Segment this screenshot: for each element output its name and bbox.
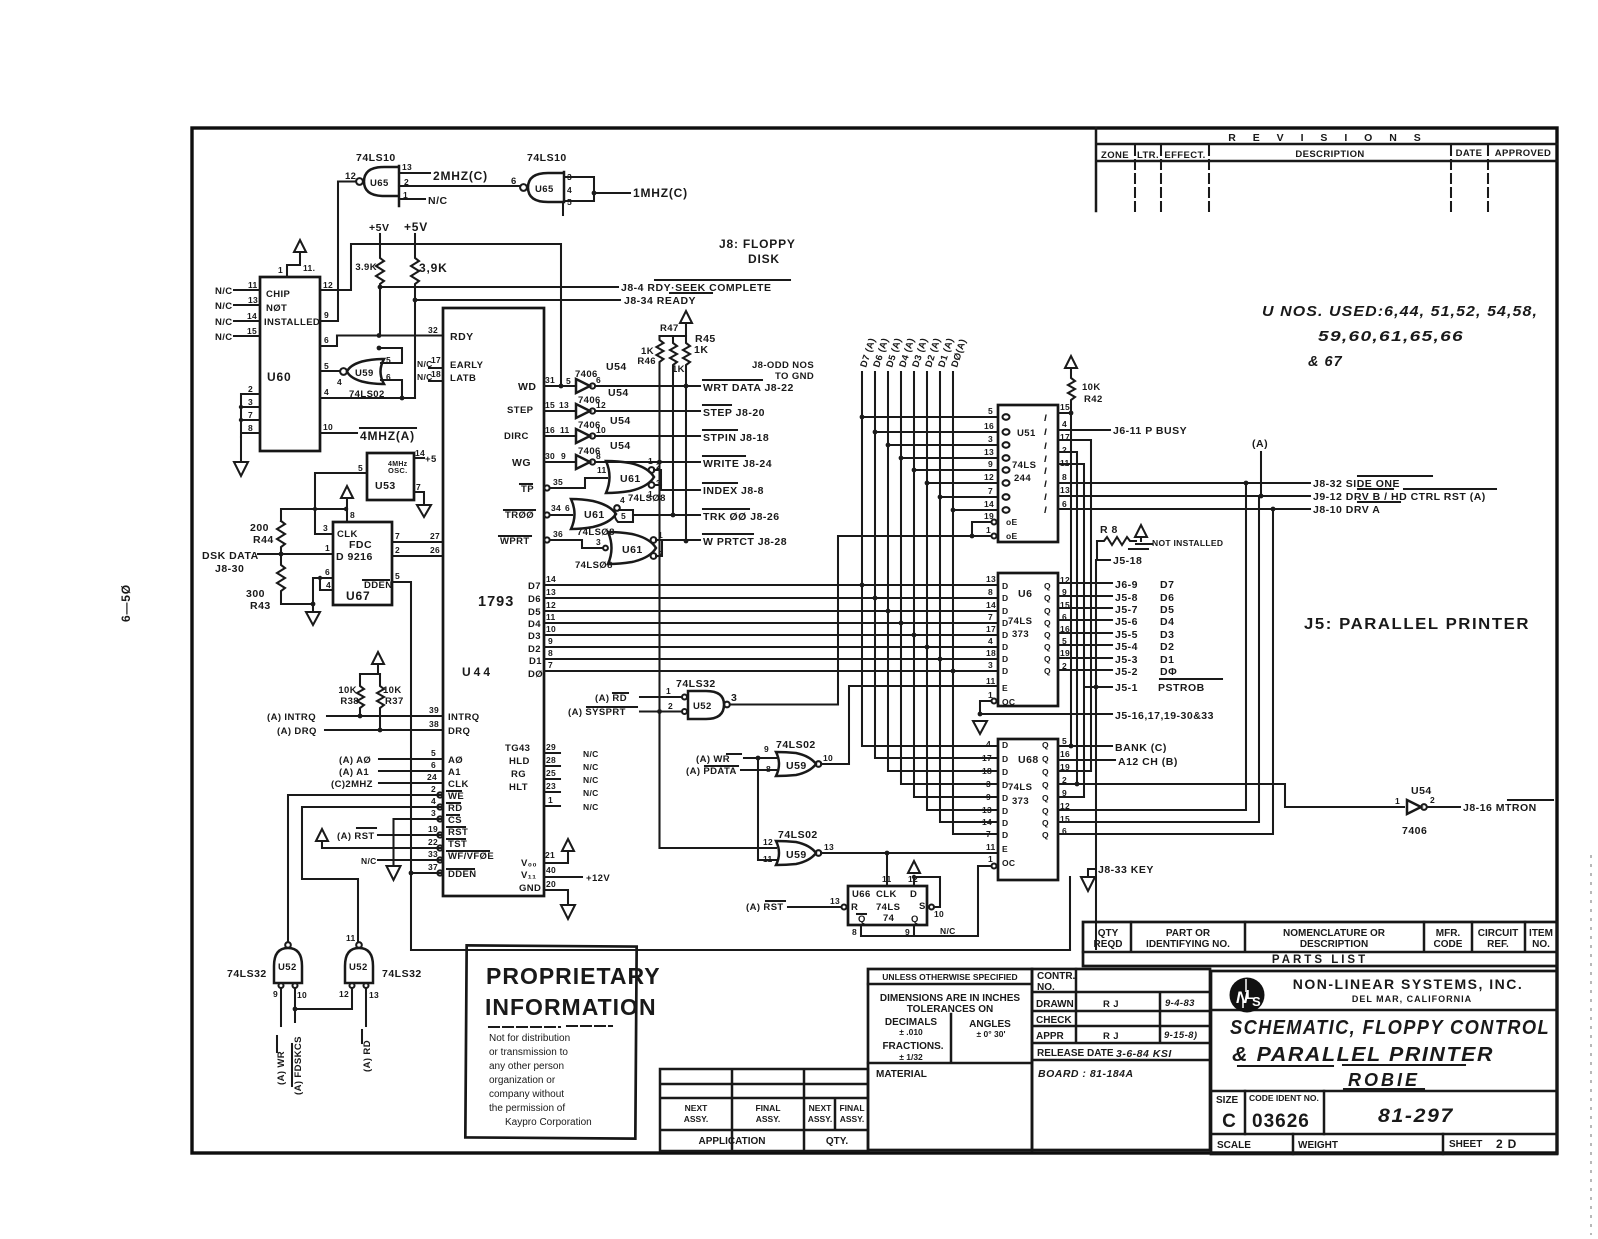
svg-text:(A) AØ: (A) AØ: [339, 755, 371, 766]
label J8-ODD NOS TO GND: [752, 360, 814, 382]
wire WPRT pin36 to U61c: [544, 529, 607, 550]
svg-text:1: 1: [325, 543, 330, 553]
svg-text:CIRCUIT: CIRCUIT: [1478, 928, 1519, 939]
svg-text:13: 13: [402, 162, 412, 172]
wire TP pin35 to U61a: [544, 465, 607, 491]
svg-text:(A) RST: (A) RST: [746, 902, 784, 913]
svg-text:MFR.: MFR.: [1436, 928, 1461, 939]
svg-text:or transmission to: or transmission to: [489, 1047, 568, 1058]
svg-text:E: E: [1002, 683, 1008, 693]
svg-text:300: 300: [246, 588, 265, 600]
svg-text:14: 14: [415, 448, 425, 458]
svg-text:10K: 10K: [383, 685, 402, 696]
wire D5 bus: [544, 610, 998, 612]
wire U68 Q16 A12CH: [1058, 759, 1115, 761]
svg-text:9: 9: [273, 989, 278, 999]
svg-text:U52: U52: [349, 962, 368, 973]
svg-text:U53: U53: [375, 480, 396, 492]
svg-text:U NOS. USED:6,44, 51,52, 54,58: U NOS. USED:6,44, 51,52, 54,58,: [1262, 304, 1538, 320]
svg-text:I: I: [1044, 479, 1047, 490]
svg-text:D3: D3: [528, 631, 541, 642]
svg-text:10K: 10K: [338, 685, 357, 696]
svg-text:NO.: NO.: [1532, 939, 1550, 950]
svg-text:13: 13: [830, 896, 840, 906]
svg-text:APPR: APPR: [1036, 1031, 1065, 1042]
wire U51 input rows: [862, 417, 998, 510]
svg-text:4: 4: [324, 387, 329, 397]
svg-text:NEXT: NEXT: [685, 1103, 708, 1113]
svg-text:RG: RG: [511, 769, 526, 780]
svg-text:OC: OC: [1002, 697, 1015, 707]
wire R44 top rail: [281, 509, 347, 521]
svg-text:10: 10: [823, 753, 833, 763]
label DSK DATA J8-30: [202, 550, 259, 575]
svg-text:13: 13: [986, 574, 996, 584]
svg-text:J8-16 MTRON: J8-16 MTRON: [1463, 802, 1537, 814]
wire U66 CLK tap: [886, 853, 888, 886]
wire (A) A1 to pin 6: [339, 760, 443, 778]
svg-text:3: 3: [986, 779, 991, 789]
svg-text:N/C: N/C: [583, 788, 599, 798]
svg-text:1: 1: [988, 854, 993, 864]
svg-text:SIZE: SIZE: [1216, 1095, 1239, 1106]
power arrow above R37/R38: [360, 652, 384, 674]
wire STPIN line: [595, 435, 700, 437]
label WRT DATA J8-22: [703, 380, 794, 394]
label J5-1 PSTROB: [1115, 679, 1222, 694]
svg-text:I: I: [1044, 492, 1047, 503]
wire U68 Q5 BANK(C): [1058, 745, 1112, 747]
svg-text:D: D: [1002, 581, 1008, 591]
svg-text:4: 4: [337, 377, 342, 387]
svg-text:S: S: [1252, 994, 1261, 1009]
wire (A) PDATA input: [686, 766, 776, 777]
svg-text:ZONE: ZONE: [1101, 150, 1129, 161]
tolerance block UNLESS OTHERWISE SPECIFIED: [868, 969, 1032, 1150]
svg-text:R47: R47: [660, 323, 679, 334]
svg-text:5: 5: [566, 376, 571, 386]
wire bus vertical D1(A): [940, 372, 998, 822]
svg-text:D6: D6: [528, 594, 541, 605]
svg-text:U54: U54: [1411, 785, 1432, 797]
svg-text:J8-ODD NOS: J8-ODD NOS: [752, 360, 814, 371]
svg-text:74LSØ8: 74LSØ8: [575, 560, 613, 571]
inverter U54c 7406: [576, 415, 631, 443]
svg-text:23: 23: [546, 781, 556, 791]
svg-text:(C)2MHZ: (C)2MHZ: [331, 779, 373, 790]
wire DIRC pin16 to inverter: [544, 435, 576, 437]
resistor R8 not installed: [1097, 524, 1223, 549]
wire J8-34 line: [415, 299, 620, 301]
svg-text:59,60,61,65,66: 59,60,61,65,66: [1318, 329, 1464, 345]
svg-text:9: 9: [561, 451, 566, 461]
svg-text:STEP: STEP: [507, 405, 534, 416]
svg-text:10K: 10K: [1082, 382, 1101, 393]
svg-text:DISK: DISK: [748, 252, 780, 266]
svg-text:10: 10: [297, 990, 307, 1000]
svg-text:35: 35: [553, 477, 563, 487]
U44 pin18 LATB N/C: [417, 369, 443, 382]
svg-text:13: 13: [984, 447, 994, 457]
wire SYSPRT vertical into U59c pin12: [660, 712, 777, 849]
wire U68 Q9 from U51 pin11: [1058, 796, 1084, 798]
svg-text:3.9K: 3.9K: [355, 262, 377, 273]
svg-text:38: 38: [429, 719, 439, 729]
svg-text:J5: PARALLEL PRINTER: J5: PARALLEL PRINTER: [1304, 616, 1530, 633]
svg-text:W PRTCT J8-28: W PRTCT J8-28: [703, 536, 787, 548]
wire bus vertical D5(A): [888, 372, 998, 771]
svg-text:9: 9: [548, 636, 553, 646]
svg-text:Q: Q: [1042, 767, 1049, 777]
wire WRITE line: [595, 461, 700, 463]
svg-text:Q: Q: [1044, 581, 1051, 591]
svg-text:U66: U66: [852, 889, 871, 900]
svg-text:TRK ØØ J8-26: TRK ØØ J8-26: [703, 511, 780, 523]
svg-text:11: 11: [248, 280, 258, 290]
svg-text:6: 6: [596, 375, 601, 385]
wire TRK00 line: [633, 514, 700, 516]
svg-text:U54: U54: [608, 387, 629, 399]
svg-text:DIMENSIONS ARE IN INCHES: DIMENSIONS ARE IN INCHES: [880, 993, 1021, 1004]
wire U6 OC to ground and J5-16 line: [980, 701, 1112, 714]
svg-text:2: 2: [1062, 445, 1067, 455]
svg-text:13: 13: [248, 295, 258, 305]
svg-text:oE: oE: [1006, 517, 1017, 527]
wire DDEN pin 37: [409, 862, 443, 876]
wire U65a pin2 to U65b input: [399, 185, 520, 187]
wire U52a pin9 down to (A)WR: [280, 988, 282, 1026]
svg-text:WG: WG: [512, 457, 531, 469]
svg-text:17: 17: [982, 753, 992, 763]
svg-text:D: D: [1002, 666, 1008, 676]
svg-text:Q: Q: [1042, 754, 1049, 764]
svg-text:D2: D2: [1160, 641, 1174, 653]
svg-text:3: 3: [988, 434, 993, 444]
svg-text:39: 39: [429, 705, 439, 715]
svg-text:74LS02: 74LS02: [778, 829, 818, 841]
wire bus vertical D0(A): [953, 372, 998, 834]
wire U59a pin5 loop to R pullup: [379, 348, 402, 363]
inverter U54d 7406: [576, 440, 631, 469]
svg-text:& PARALLEL PRINTER: & PARALLEL PRINTER: [1232, 1044, 1494, 1066]
svg-text:9: 9: [986, 792, 991, 802]
svg-text:IDENTIFYING NO.: IDENTIFYING NO.: [1146, 939, 1230, 950]
svg-text:J5-6: J5-6: [1115, 616, 1138, 628]
svg-text:18: 18: [986, 648, 996, 658]
ground arrow under R43: [306, 604, 320, 625]
svg-text:U61: U61: [622, 544, 643, 556]
svg-text:36: 36: [553, 529, 563, 539]
svg-text:373: 373: [1012, 796, 1029, 807]
power +5V (left): [369, 222, 389, 244]
wire STEP pin15 to inverter: [544, 410, 576, 412]
svg-text:1: 1: [658, 530, 663, 540]
svg-text:21: 21: [545, 850, 555, 860]
svg-text:U68: U68: [1018, 754, 1039, 766]
svg-text:TST: TST: [448, 839, 467, 850]
wire U51 pin8 J8-32 SIDE ONE line: [1058, 482, 1310, 484]
svg-text:(A): (A): [1252, 438, 1268, 450]
svg-text:U54: U54: [610, 415, 631, 427]
wire (A) WR input: [696, 754, 776, 765]
svg-text:(A) WR: (A) WR: [276, 1051, 287, 1085]
wire D6 bus: [544, 597, 998, 599]
svg-text:ITEM: ITEM: [1529, 928, 1553, 939]
wire U65a pin13 to 2MHZ(C): [399, 172, 430, 174]
wire RD net pin 4: [302, 796, 443, 941]
svg-text:HLD: HLD: [509, 756, 530, 767]
svg-text:RDY: RDY: [450, 331, 474, 343]
label J8-16 MTRON: [1463, 800, 1553, 814]
svg-text:N/C: N/C: [583, 775, 599, 785]
wire D7 bus: [544, 584, 998, 586]
svg-text:5: 5: [395, 571, 400, 581]
svg-text:4: 4: [431, 796, 436, 806]
svg-text:J5-5: J5-5: [1115, 629, 1138, 641]
svg-text:WEIGHT: WEIGHT: [1298, 1140, 1338, 1151]
svg-text:J5-16,17,19-30&33: J5-16,17,19-30&33: [1115, 710, 1214, 722]
title block NLS: [1211, 971, 1557, 1154]
svg-text:N/C: N/C: [428, 195, 448, 207]
svg-text:U60: U60: [267, 370, 291, 384]
svg-text:15: 15: [247, 326, 257, 336]
svg-text:D6: D6: [1160, 592, 1174, 604]
svg-text:8: 8: [1062, 472, 1067, 482]
label STPIN J8-18: [703, 430, 769, 444]
U44 pin 21 Vcc power arrow: [544, 839, 574, 863]
svg-text:CHIP: CHIP: [266, 289, 291, 300]
or gate U61a dual output: [606, 456, 666, 504]
svg-text:NØT: NØT: [266, 303, 287, 314]
svg-text:11: 11: [597, 465, 607, 475]
wire TRO0 pin34 to U61b: [544, 503, 572, 518]
wire U6 Q2 to J5-2 D0: [1058, 669, 1112, 671]
svg-text:12: 12: [596, 400, 606, 410]
svg-text:(A) SYSPRT: (A) SYSPRT: [568, 707, 626, 718]
wire (A) A0 to pin 5: [339, 748, 443, 766]
U60 top pins 1,11 to power arrow: [278, 240, 315, 277]
wire U52b pin13 down to (A)RD: [365, 988, 367, 1026]
junction R45 on WRT DATA line: [684, 384, 689, 389]
wire MTRON output: [1427, 806, 1460, 808]
svg-text:D: D: [1002, 606, 1008, 616]
svg-text:5: 5: [431, 748, 436, 758]
wire WG pin30 to inverter: [544, 461, 576, 463]
svg-text:J8-33 KEY: J8-33 KEY: [1098, 864, 1154, 876]
wire D0 bus: [544, 670, 998, 672]
label J9-12 DRV B / HD CTRL RST (A): [1313, 489, 1496, 503]
svg-text:U61: U61: [620, 473, 641, 485]
svg-text:DØ: DØ: [528, 669, 543, 680]
wire J5-18 vertical to PSTROB and down: [1095, 560, 1097, 949]
svg-text:11: 11: [546, 612, 556, 622]
svg-text:2: 2: [656, 461, 661, 471]
svg-text:3: 3: [431, 808, 436, 818]
svg-text:WRT DATA J8-22: WRT DATA J8-22: [703, 382, 794, 394]
ground arrow under U60: [234, 437, 248, 476]
svg-text:9: 9: [324, 310, 329, 320]
svg-text:Q: Q: [1042, 780, 1049, 790]
U60 left pin 15 N/C: [215, 326, 260, 343]
svg-text:+5: +5: [425, 454, 437, 465]
svg-text:+5V: +5V: [369, 222, 389, 234]
svg-text:1: 1: [648, 456, 653, 466]
svg-text:13: 13: [982, 805, 992, 815]
svg-text:12: 12: [546, 600, 556, 610]
svg-text:4MHZ(A): 4MHZ(A): [360, 429, 415, 443]
svg-text:BANK (C): BANK (C): [1115, 742, 1167, 754]
svg-text:NO.: NO.: [1037, 982, 1055, 993]
svg-text:17: 17: [986, 624, 996, 634]
IC U67 FDC 9216: [323, 522, 393, 605]
svg-text:N/C: N/C: [215, 301, 233, 312]
svg-text:R J: R J: [1103, 999, 1119, 1010]
svg-text:D 9216: D 9216: [336, 551, 373, 563]
svg-text:V₀₀: V₀₀: [521, 858, 537, 869]
label J8-32 SIDE ONE: [1313, 476, 1432, 490]
svg-text:4: 4: [326, 580, 331, 590]
wire RDY net: [337, 334, 443, 336]
svg-text:EFFECT.: EFFECT.: [1164, 150, 1205, 161]
svg-text:D2: D2: [528, 644, 541, 655]
svg-text:20: 20: [546, 879, 556, 889]
svg-text:1K: 1K: [694, 344, 708, 356]
svg-text:SCHEMATIC, FLOPPY CONTROL: SCHEMATIC, FLOPPY CONTROL: [1230, 1017, 1550, 1039]
wire (A) RST to pin 19: [337, 824, 443, 842]
svg-text:NON-LINEAR SYSTEMS, INC.: NON-LINEAR SYSTEMS, INC.: [1293, 976, 1523, 992]
svg-text:5: 5: [621, 511, 626, 521]
svg-text:22: 22: [428, 837, 438, 847]
svg-text:J8-30: J8-30: [215, 563, 244, 575]
svg-text:19: 19: [1060, 648, 1070, 658]
svg-text:LATB: LATB: [450, 373, 476, 384]
svg-text:DESCRIPTION: DESCRIPTION: [1295, 149, 1364, 160]
wire U59b out to U6 E: [821, 686, 998, 764]
U44 pin 40 Vdd +12V: [544, 865, 610, 884]
wire U6 Q15 to J5-7 D5: [1058, 607, 1112, 609]
svg-text:(A) FDSKCS: (A) FDSKCS: [293, 1036, 304, 1095]
and gate U52 mid: [682, 691, 737, 719]
U60 left pin 11 N/C: [215, 280, 260, 297]
svg-text:11: 11: [986, 842, 996, 852]
svg-text:any other person: any other person: [489, 1061, 564, 1072]
svg-text:FINAL: FINAL: [839, 1103, 864, 1113]
svg-text:13: 13: [559, 400, 569, 410]
svg-text:ASSY.: ASSY.: [684, 1114, 709, 1124]
svg-text:WPRT: WPRT: [500, 536, 530, 547]
svg-text:81-297: 81-297: [1378, 1106, 1454, 1127]
svg-text:QTY: QTY: [1098, 928, 1119, 939]
svg-text:6: 6: [324, 335, 329, 345]
U44 pin 20 GND to ground: [544, 879, 575, 919]
wire (A) INTRQ to pin 39: [267, 705, 443, 723]
svg-text:NOT INSTALLED: NOT INSTALLED: [1152, 538, 1223, 548]
svg-text:R37: R37: [385, 696, 404, 707]
svg-text:7: 7: [416, 482, 421, 492]
svg-text:14: 14: [982, 817, 992, 827]
svg-text:(A) RD: (A) RD: [595, 693, 627, 704]
revisions table: [1096, 128, 1557, 211]
svg-text:18: 18: [431, 369, 441, 379]
svg-text:34: 34: [551, 503, 561, 513]
svg-text:Q: Q: [858, 914, 866, 925]
svg-text:244: 244: [1014, 473, 1031, 484]
svg-text:N/C: N/C: [940, 926, 956, 936]
svg-text:APPROVED: APPROVED: [1495, 148, 1552, 159]
svg-text:17: 17: [431, 355, 441, 365]
svg-text:32: 32: [428, 325, 438, 335]
svg-text:4: 4: [1062, 419, 1067, 429]
svg-text:R E V I S I O N S: R E V I S I O N S: [1228, 132, 1428, 144]
nor gate U59a: [337, 355, 391, 400]
svg-text:INDEX J8-8: INDEX J8-8: [703, 485, 764, 497]
resistor R42 10K with power arrow: [1065, 356, 1103, 413]
svg-text:8: 8: [548, 648, 553, 658]
svg-text:11: 11: [346, 933, 356, 943]
wire (A) RD input: [595, 686, 682, 704]
svg-text:8: 8: [852, 927, 857, 937]
IC U60 chip not installed: [260, 277, 320, 451]
svg-text:74LS10: 74LS10: [527, 152, 567, 164]
svg-text:9: 9: [988, 459, 993, 469]
wire U67 pin 7 FDATA to U44: [392, 531, 443, 542]
svg-text:WE: WE: [448, 791, 464, 802]
svg-text:7: 7: [548, 660, 553, 670]
svg-text:U67: U67: [346, 589, 370, 603]
label WPRTCT J8-28: [703, 534, 787, 548]
border frame: [192, 128, 1557, 1153]
proprietary information box: [465, 945, 660, 1138]
wire DDEN net continues to bottom rail: [411, 873, 1070, 950]
svg-text:INSTALLED: INSTALLED: [264, 317, 320, 328]
svg-text:5: 5: [358, 463, 363, 473]
svg-text:OC: OC: [1002, 858, 1015, 868]
oscillator U53: [367, 453, 414, 500]
svg-text:2: 2: [431, 784, 436, 794]
svg-text:V₁₁: V₁₁: [521, 870, 536, 881]
wire bus vertical D6(A): [875, 372, 998, 758]
svg-text:± 0° 30': ± 0° 30': [977, 1029, 1006, 1039]
svg-text:DEL MAR, CALIFORNIA: DEL MAR, CALIFORNIA: [1352, 994, 1472, 1004]
U44 right pins TG43 29 N/C: [544, 742, 599, 759]
svg-text:7: 7: [248, 410, 253, 420]
svg-text:1MHZ(C): 1MHZ(C): [633, 186, 688, 200]
svg-text:8: 8: [596, 451, 601, 461]
svg-text:DESCRIPTION: DESCRIPTION: [1300, 939, 1368, 950]
svg-text:HLT: HLT: [509, 782, 528, 793]
svg-text:R J: R J: [1103, 1031, 1119, 1042]
svg-text:6: 6: [1062, 499, 1067, 509]
svg-text:INTRQ: INTRQ: [448, 712, 480, 723]
svg-text:J5-4: J5-4: [1115, 641, 1138, 653]
svg-text:6: 6: [511, 176, 517, 187]
svg-text:13: 13: [546, 587, 556, 597]
svg-text:(A) A1: (A) A1: [339, 767, 369, 778]
svg-text:DRAWN: DRAWN: [1036, 999, 1074, 1010]
resistor R43 300: [246, 554, 313, 612]
U60 left pins 2,3,7,8 chain: [239, 384, 260, 437]
wire U6 Q16 to J5-5 D3: [1058, 632, 1112, 634]
wire CS net pin 3 to ground: [387, 808, 444, 880]
junction R46 on WRITE line: [657, 460, 662, 465]
svg-text:(A) RD: (A) RD: [362, 1040, 373, 1072]
svg-text:ASSY.: ASSY.: [756, 1114, 781, 1124]
svg-text:16: 16: [984, 421, 994, 431]
svg-text:LTR.: LTR.: [1137, 150, 1159, 161]
svg-text:74LSØ8: 74LSØ8: [628, 493, 666, 504]
note U NOS. USED: [1262, 304, 1538, 370]
power arrow above U67 pin 8: [341, 486, 355, 522]
